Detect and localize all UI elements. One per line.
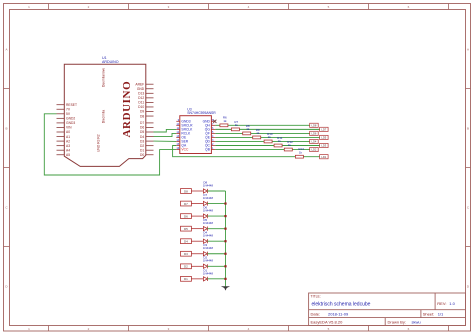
svg-text:4: 4 xyxy=(248,5,250,9)
wire R6 to port LD8 xyxy=(228,124,310,126)
svg-text:1N4448: 1N4448 xyxy=(203,196,214,200)
resistor R6 xyxy=(220,116,228,127)
svg-text:ARDUINO: ARDUINO xyxy=(121,81,133,138)
svg-text:D5: D5 xyxy=(184,227,188,231)
wire D5 to U3 SRCLK xyxy=(154,129,177,132)
resistor R7 xyxy=(231,120,239,131)
svg-text:C: C xyxy=(5,206,8,210)
port D5 (diode side) xyxy=(181,226,192,231)
wire diode D8 cathode to bus xyxy=(207,190,225,192)
svg-text:Duemilanove: Duemilanove xyxy=(101,68,105,87)
svg-text:D5: D5 xyxy=(140,130,144,134)
wire port D1 to diode anode xyxy=(191,278,203,280)
svg-text:D13: D13 xyxy=(138,92,144,96)
arduino right pin labels xyxy=(135,82,144,157)
svg-text:QB: QB xyxy=(205,148,211,152)
port LD7 xyxy=(320,127,329,131)
svg-text:D1: D1 xyxy=(140,148,144,152)
svg-text:D1: D1 xyxy=(184,277,188,281)
wire R13 to port LD1 xyxy=(303,156,319,158)
svg-text:Sheet:: Sheet: xyxy=(423,311,435,316)
port D6 (diode side) xyxy=(181,214,192,219)
svg-text:Drawn By:: Drawn By: xyxy=(388,319,406,324)
U3 right pins xyxy=(211,121,215,149)
svg-text:D2: D2 xyxy=(140,144,144,148)
svg-text:A0: A0 xyxy=(66,130,70,134)
port LD3 xyxy=(320,143,329,147)
svg-text:D: D xyxy=(467,285,470,289)
wire diode D7 cathode to bus xyxy=(207,203,225,205)
resistor R10 xyxy=(264,132,273,143)
svg-text:RESET: RESET xyxy=(66,103,77,107)
diode D3 1N4448 xyxy=(203,243,214,256)
wire R8 to port LD6 xyxy=(251,132,310,134)
arduino left pin labels xyxy=(66,103,77,157)
svg-text:A: A xyxy=(5,48,7,52)
wire U3 QF to R8 xyxy=(215,132,242,134)
diode D6 1N4448 xyxy=(203,206,214,219)
wire U3 QB to R12 xyxy=(215,149,284,151)
wire R12 to port LD2 xyxy=(292,149,309,151)
port D7 (diode side) xyxy=(181,201,192,206)
resistor R8 xyxy=(243,124,251,135)
diode D8 1N4448 xyxy=(203,180,214,193)
svg-text:D6: D6 xyxy=(184,214,188,218)
svg-text:1N4448: 1N4448 xyxy=(203,259,214,263)
svg-text:1k: 1k xyxy=(299,150,303,154)
arduino U1 body xyxy=(64,64,146,166)
svg-text:D8: D8 xyxy=(140,114,144,118)
svg-text:D3: D3 xyxy=(184,252,188,256)
svg-text:D9: D9 xyxy=(140,110,144,114)
port LD4 xyxy=(310,139,319,143)
wire diode D6 cathode to bus xyxy=(207,215,225,217)
svg-text:TITLE:: TITLE: xyxy=(311,295,321,299)
svg-text:D7: D7 xyxy=(184,202,188,206)
svg-text:1.0: 1.0 xyxy=(449,301,455,306)
wire U3 QG to R7 xyxy=(215,128,231,130)
diode D4 1N4448 xyxy=(203,231,214,244)
port D2 (diode side) xyxy=(181,264,192,269)
wire port D5 to diode anode xyxy=(191,228,203,230)
svg-text:3: 3 xyxy=(168,327,170,331)
junction dots on bus xyxy=(224,202,226,280)
svg-text:B: B xyxy=(467,127,469,131)
wire U3 QE to R9 xyxy=(215,136,252,138)
port D4 (diode side) xyxy=(181,239,192,244)
svg-text:D11: D11 xyxy=(138,101,144,105)
svg-text:C: C xyxy=(467,206,470,210)
arduino U1 reference label xyxy=(102,56,119,64)
wire QA to R13 row xyxy=(173,146,296,157)
resistor R13 xyxy=(295,147,304,158)
svg-text:1k: 1k xyxy=(246,127,250,131)
svg-text:LD6: LD6 xyxy=(311,132,316,136)
svg-text:1N4448: 1N4448 xyxy=(203,246,214,250)
wire port D8 to diode anode xyxy=(191,190,203,192)
svg-text:LD1: LD1 xyxy=(321,155,326,159)
ground symbol xyxy=(221,286,230,290)
wire diode D5 cathode to bus xyxy=(207,228,225,230)
svg-text:A5: A5 xyxy=(66,153,70,157)
title block frame xyxy=(309,293,466,326)
resistor R9 xyxy=(253,128,261,139)
svg-text:REV:: REV: xyxy=(437,301,446,306)
svg-text:1N4448: 1N4448 xyxy=(203,209,214,213)
wire R9 to port LD5 xyxy=(261,136,320,138)
wire diode common bus xyxy=(225,191,227,288)
svg-text:1k: 1k xyxy=(256,131,260,135)
svg-text:1N4448: 1N4448 xyxy=(203,221,214,225)
wire port D2 to diode anode xyxy=(191,265,203,267)
svg-text:LD4: LD4 xyxy=(311,140,316,144)
diode D1 1N4448 xyxy=(203,268,214,281)
wire port D7 to diode anode xyxy=(191,203,203,205)
svg-text:1: 1 xyxy=(28,327,30,331)
svg-text:VIN: VIN xyxy=(66,126,72,130)
svg-text:D4: D4 xyxy=(140,135,144,139)
svg-text:A1: A1 xyxy=(66,135,70,139)
svg-text:D10: D10 xyxy=(138,105,144,109)
svg-text:VCC: VCC xyxy=(181,148,189,152)
svg-text:2018-11-09: 2018-11-09 xyxy=(328,311,349,316)
svg-text:LD5: LD5 xyxy=(321,136,326,140)
port D1 (diode side) xyxy=(181,276,192,281)
svg-text:3: 3 xyxy=(168,5,170,9)
svg-text:A: A xyxy=(467,48,469,52)
svg-text:LD2: LD2 xyxy=(311,148,316,152)
svg-text:1k: 1k xyxy=(288,143,292,147)
U3 right pin names xyxy=(203,120,211,152)
resistor R11 xyxy=(274,136,283,147)
arduino right pins AREF GND D13-D0 xyxy=(146,84,154,155)
svg-text:D6: D6 xyxy=(140,126,144,130)
wire port D3 to diode anode xyxy=(191,253,203,255)
svg-text:A4: A4 xyxy=(66,148,70,152)
port D8 (diode side) xyxy=(181,189,192,194)
U3 right pin numbers 8 7 6 5 4 3 2 1 xyxy=(212,119,214,150)
svg-text:A2: A2 xyxy=(66,139,70,143)
svg-text:2: 2 xyxy=(88,5,90,9)
svg-text:GND: GND xyxy=(137,87,145,91)
svg-text:D3: D3 xyxy=(140,139,144,143)
wire 5V to U3 VCC xyxy=(44,114,176,175)
port LD6 xyxy=(310,131,319,135)
port D3 (diode side) xyxy=(181,251,192,256)
U3 left pins xyxy=(176,121,180,149)
resistor R12 xyxy=(284,140,293,151)
svg-text:1N4448: 1N4448 xyxy=(203,183,214,187)
port LD2 xyxy=(310,147,319,151)
U3 left pin numbers 9 10 11 12 13 14 15 16 xyxy=(176,119,179,150)
svg-text:1N4448: 1N4448 xyxy=(203,234,214,238)
svg-text:LD8: LD8 xyxy=(311,124,316,128)
diode D2 1N4448 xyxy=(203,256,214,269)
arduino left pins RESET 7V 5V GND2 GND3 VIN A0-A5 xyxy=(57,105,65,155)
svg-text:GND3: GND3 xyxy=(66,121,75,125)
svg-text:UNO R3 R2: UNO R3 R2 xyxy=(96,134,100,152)
U3 GND pin no-connect X xyxy=(213,120,216,123)
shift register U3 reference label xyxy=(187,108,216,116)
wire D4 to U3 RCLK xyxy=(154,133,177,136)
svg-text:D0: D0 xyxy=(140,153,144,157)
U3 left pin names xyxy=(181,120,193,148)
wire port D6 to diode anode xyxy=(191,215,203,217)
wire R7 to port LD7 xyxy=(239,128,319,130)
port LD8 xyxy=(310,123,319,127)
wire D3 to U3 SER xyxy=(154,140,177,142)
svg-text:elektrisch schema ledcube: elektrisch schema ledcube xyxy=(312,302,371,308)
svg-text:SN74HC595ANSR: SN74HC595ANSR xyxy=(187,111,216,115)
port LD5 xyxy=(320,135,329,139)
svg-text:4: 4 xyxy=(248,327,250,331)
svg-text:D4: D4 xyxy=(184,240,188,244)
svg-text:D2: D2 xyxy=(184,265,188,269)
diode D5 1N4448 xyxy=(203,218,214,231)
svg-text:A3: A3 xyxy=(66,144,70,148)
wire port D4 to diode anode xyxy=(191,240,203,242)
svg-text:Date:: Date: xyxy=(311,311,321,316)
svg-text:6: 6 xyxy=(408,5,410,9)
port LD1 xyxy=(320,155,329,159)
svg-text:GND2: GND2 xyxy=(66,117,75,121)
svg-text:AREF: AREF xyxy=(135,82,144,86)
svg-text:1/1: 1/1 xyxy=(438,311,444,316)
svg-text:D7: D7 xyxy=(140,121,144,125)
wire diode D3 cathode to bus xyxy=(207,253,225,255)
svg-text:B: B xyxy=(5,127,7,131)
svg-text:1N4448: 1N4448 xyxy=(203,271,214,275)
wire U3 QC to R11 xyxy=(215,145,274,147)
wire U3 QD to R10 xyxy=(215,140,264,142)
wire R11 to port LD3 xyxy=(282,145,320,147)
svg-text:5: 5 xyxy=(328,327,330,331)
diode D7 1N4448 xyxy=(203,193,214,206)
svg-text:skwu: skwu xyxy=(412,319,421,324)
svg-text:D: D xyxy=(5,285,8,289)
svg-text:Diecimila: Diecimila xyxy=(102,110,106,124)
svg-text:5: 5 xyxy=(328,5,330,9)
wire U3 QH to R6 xyxy=(215,124,220,126)
svg-text:2: 2 xyxy=(88,327,90,331)
svg-text:1k: 1k xyxy=(235,123,239,127)
svg-text:EasyEDA V5.8.20: EasyEDA V5.8.20 xyxy=(311,319,344,324)
svg-text:LD7: LD7 xyxy=(321,128,326,132)
wire R10 to port LD4 xyxy=(272,140,310,142)
wire diode D4 cathode to bus xyxy=(207,240,225,242)
svg-text:ARDUINO: ARDUINO xyxy=(102,60,119,64)
svg-text:6: 6 xyxy=(408,327,410,331)
svg-text:1k: 1k xyxy=(223,119,227,123)
svg-text:D8: D8 xyxy=(184,189,188,193)
svg-text:D12: D12 xyxy=(138,96,144,100)
shift register U3 body xyxy=(180,116,212,154)
svg-text:1: 1 xyxy=(28,5,30,9)
wire diode D1 cathode to bus xyxy=(207,278,225,280)
svg-text:1k: 1k xyxy=(278,139,282,143)
wire diode D2 cathode to bus xyxy=(207,265,225,267)
svg-text:LD3: LD3 xyxy=(321,144,326,148)
svg-text:1k: 1k xyxy=(268,135,272,139)
